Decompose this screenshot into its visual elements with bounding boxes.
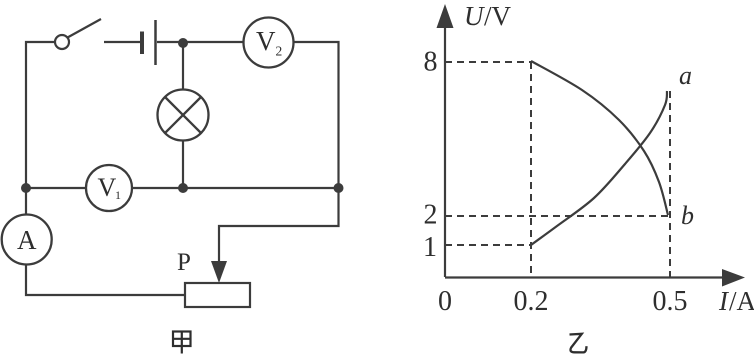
switch S <box>55 19 101 49</box>
dashed guide U=1 <box>445 244 531 246</box>
lamp L <box>158 90 209 141</box>
voltmeter V2 <box>244 18 294 68</box>
svg-text:b: b <box>681 201 694 230</box>
dashed guide U=8 <box>445 61 531 63</box>
svg-text:U: U <box>464 1 485 31</box>
svg-text:1: 1 <box>115 188 121 202</box>
svg-text:0: 0 <box>438 286 452 317</box>
svg-text:/V: /V <box>484 1 512 31</box>
wire middle left segment <box>26 187 86 189</box>
wire battery to V2 <box>157 41 244 43</box>
label yi (graph) drawn as strokes <box>570 334 587 353</box>
curve b descending <box>531 61 668 215</box>
svg-text:V: V <box>98 173 117 202</box>
svg-text:V: V <box>256 26 276 56</box>
dashed guide I=0.5 <box>669 91 671 277</box>
curve a ascending <box>531 91 667 245</box>
wire ammeter bottom to rheostat <box>26 265 185 296</box>
svg-text:P: P <box>177 249 191 276</box>
graph x-axis I <box>445 276 736 278</box>
ammeter A <box>2 215 52 265</box>
dashed guide U=2 <box>445 215 670 217</box>
wire middle right segment <box>132 187 339 189</box>
rheostat slider arrow <box>211 261 227 283</box>
wire switch to battery <box>104 41 140 43</box>
svg-text:0.5: 0.5 <box>653 286 688 317</box>
node junction middle-right <box>334 183 344 193</box>
wire lamp branch lower <box>182 140 184 188</box>
label jia (circuit) drawn as strokes <box>173 332 191 354</box>
svg-text:2: 2 <box>424 200 438 231</box>
wire top-left horizontal <box>26 42 55 215</box>
graph y-axis U <box>444 12 446 277</box>
svg-text:a: a <box>679 61 692 90</box>
svg-text:2: 2 <box>276 44 283 59</box>
wire lamp branch upper <box>182 43 184 90</box>
svg-text:8: 8 <box>424 47 438 78</box>
svg-text:/A: /A <box>729 286 754 316</box>
wire V2 to right corner <box>293 42 339 188</box>
dashed guide I=0.2 <box>530 62 532 277</box>
svg-text:A: A <box>17 225 37 255</box>
battery cell <box>142 20 156 65</box>
svg-text:1: 1 <box>423 232 437 263</box>
node junction middle-left <box>21 183 31 193</box>
rheostat R body <box>185 283 250 307</box>
node junction top <box>178 38 188 48</box>
wire slider branch <box>219 188 339 264</box>
voltmeter V1 <box>86 165 132 211</box>
svg-text:0.2: 0.2 <box>514 286 549 317</box>
node junction middle-center <box>178 183 188 193</box>
